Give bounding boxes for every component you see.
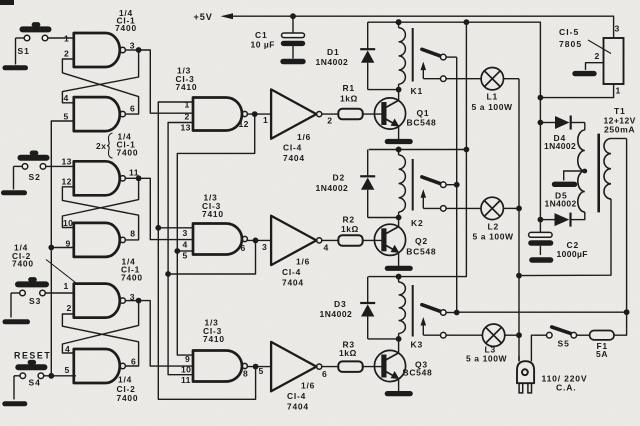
switch S3 pushbutton: [18, 280, 46, 306]
pin number labels latch: [64, 281, 137, 375]
pin number labels latch: [64, 34, 136, 122]
svg-text:CI-5: CI-5: [559, 27, 579, 37]
wire latch cross-coupling: [62, 301, 138, 366]
svg-text:5: 5: [65, 365, 70, 375]
ground at Q2 emitter: [387, 266, 410, 271]
relay K2 coil: [396, 147, 424, 228]
lamp L1 5a 100W: [446, 68, 519, 113]
lamp L2 5a 100W: [446, 197, 522, 241]
svg-text:K1: K1: [411, 86, 423, 96]
svg-text:BC548: BC548: [403, 368, 433, 378]
wire latch upper output to node: [125, 47, 141, 53]
svg-text:3: 3: [615, 24, 620, 34]
relay K3 coil: [396, 274, 423, 350]
wire S1 to latch1 pin 1: [48, 37, 74, 39]
svg-text:7805: 7805: [559, 39, 582, 49]
svg-text:S2: S2: [29, 172, 41, 182]
svg-text:R1: R1: [343, 83, 355, 93]
label 1/4 CI-2 7400 (latch3 lower): [117, 375, 139, 404]
switch S5: [533, 327, 576, 349]
voltage regulator CI-5 7805: [559, 24, 624, 96]
resistor R2 1k: [322, 215, 363, 246]
pin number labels CI-3: [181, 354, 248, 385]
label RESET: [14, 351, 51, 361]
svg-text:7404: 7404: [283, 153, 305, 163]
wire K3 NO contact to bus: [446, 312, 457, 314]
svg-text:3: 3: [183, 228, 188, 238]
svg-text:7400: 7400: [115, 23, 137, 33]
svg-text:CI-4: CI-4: [282, 267, 301, 277]
resistor R1 1k: [322, 83, 363, 119]
wire latch upper output to node: [125, 298, 141, 304]
svg-text:RESET: RESET: [14, 351, 51, 361]
transformer T1 secondary winding: [578, 123, 585, 220]
wire latch cross-coupling: [62, 50, 138, 114]
svg-text:4: 4: [183, 240, 188, 250]
svg-text:D3: D3: [334, 299, 346, 309]
svg-text:1/6: 1/6: [296, 257, 310, 267]
svg-text:L1: L1: [487, 92, 499, 102]
svg-text:5 a 100W: 5 a 100W: [472, 102, 514, 112]
svg-text:L2: L2: [488, 222, 500, 232]
relay K2 contacts: [421, 177, 447, 211]
svg-text:6: 6: [241, 243, 246, 253]
wire latch3 output to CI-3c pin10: [139, 301, 193, 367]
svg-text:1: 1: [263, 115, 268, 125]
pin number labels latch: [62, 157, 139, 249]
switch S1 pushbutton: [18, 25, 49, 56]
svg-text:2: 2: [185, 112, 190, 122]
svg-text:7404: 7404: [282, 278, 304, 288]
switch S2 pushbutton: [21, 153, 47, 182]
svg-text:7410: 7410: [202, 209, 224, 219]
svg-text:S1: S1: [18, 46, 30, 56]
transformer T1 primary winding: [519, 139, 627, 313]
svg-text:6: 6: [131, 357, 136, 367]
inverter CI-4: [271, 342, 322, 391]
svg-text:K3: K3: [411, 340, 423, 350]
svg-text:BC548: BC548: [407, 118, 437, 128]
transistor Q3 BC548: [363, 339, 433, 391]
label 110/220V C.A.: [542, 374, 588, 393]
label 1/4 CI-1 7400 (latch2 lower): [121, 257, 143, 283]
svg-text:13: 13: [62, 157, 72, 167]
mains plug 110/220V: [517, 335, 534, 393]
svg-text:1kΩ: 1kΩ: [340, 94, 358, 104]
wire latch upper output to node: [125, 175, 141, 181]
svg-text:3: 3: [130, 41, 135, 51]
wire S2 to latch2 pin 13: [46, 165, 74, 167]
wire latch2 output to CI-3b pin4: [139, 178, 193, 239]
svg-text:4: 4: [324, 243, 329, 253]
svg-text:3: 3: [130, 292, 135, 302]
svg-text:5: 5: [183, 251, 188, 261]
svg-text:6: 6: [130, 104, 135, 114]
wire mains line from NO bus to fuse junction: [457, 309, 630, 315]
svg-text:2: 2: [595, 51, 600, 61]
svg-text:1kΩ: 1kΩ: [339, 348, 357, 358]
ground at S2: [4, 166, 25, 192]
svg-text:+5V: +5V: [194, 12, 213, 22]
wire latch1 output to CI-3a pin2: [139, 50, 193, 113]
svg-text:1N4002: 1N4002: [545, 199, 577, 209]
svg-text:4: 4: [64, 93, 69, 103]
svg-text:S4: S4: [29, 378, 41, 388]
svg-text:1N4002: 1N4002: [320, 309, 353, 319]
svg-text:1: 1: [64, 281, 69, 291]
diode D4 1N4002: [538, 116, 585, 152]
labels 1/6 CI-4 7404: [283, 132, 311, 163]
svg-text:6: 6: [322, 369, 327, 379]
wire S4 to latch3 pin 5 and reset bus node: [44, 373, 76, 379]
inverter CI-4: [271, 216, 322, 265]
capacitor C1 10uF: [251, 16, 305, 58]
wire unregulated supply rail: [368, 19, 541, 232]
pin number labels CI-4: [259, 366, 328, 379]
diode D5 1N4002: [538, 191, 586, 227]
svg-text:10 µF: 10 µF: [251, 40, 275, 50]
relay K1 coil: [396, 19, 423, 96]
svg-text:250mA: 250mA: [604, 125, 635, 135]
svg-text:10: 10: [181, 365, 191, 375]
scan corner mark: [0, 0, 14, 5]
pin number labels CI-3: [181, 100, 249, 133]
svg-text:2: 2: [327, 116, 332, 126]
3-input NAND gate CI-3: [193, 98, 247, 131]
relay K3 contacts: [421, 305, 447, 338]
nand gate latch upper (out 11): [74, 161, 126, 195]
svg-text:4: 4: [65, 344, 70, 354]
wire latch cross-coupling: [62, 178, 138, 240]
3-input NAND gate CI-3: [193, 224, 247, 255]
svg-text:8: 8: [243, 369, 248, 379]
svg-text:2: 2: [64, 49, 69, 59]
labels 1/3 CI-3 7410: [203, 318, 225, 345]
svg-text:2x: 2x: [96, 141, 107, 151]
svg-text:CI-4: CI-4: [287, 391, 306, 401]
wire CI-5 pin2 to ground: [586, 63, 604, 70]
label +5V with arrow: [194, 12, 234, 22]
svg-text:Q2: Q2: [415, 236, 428, 246]
svg-text:5: 5: [259, 366, 264, 376]
svg-text:1: 1: [64, 34, 69, 44]
svg-text:5: 5: [64, 112, 69, 122]
nand gate latch lower (out 6): [74, 97, 126, 131]
wire NO-contact bus K1-K2-K3: [454, 57, 460, 315]
wire coil supply bus: [368, 19, 469, 279]
transistor Q1 BC548: [363, 90, 437, 140]
svg-text:7404: 7404: [287, 402, 309, 412]
svg-text:1/4: 1/4: [118, 375, 132, 385]
svg-text:1kΩ: 1kΩ: [341, 224, 359, 234]
labels 1/3 CI-3 7410: [176, 66, 198, 93]
svg-text:7400: 7400: [12, 259, 34, 269]
svg-text:7410: 7410: [203, 334, 225, 344]
capacitor C2 1000uF: [529, 232, 588, 259]
inverter CI-4: [271, 89, 322, 138]
svg-text:10: 10: [63, 218, 73, 228]
svg-text:9: 9: [185, 354, 190, 364]
ground at C1: [283, 59, 303, 64]
svg-text:12: 12: [239, 119, 249, 129]
ground at Q1 emitter: [387, 139, 410, 144]
lamp L3 5a 100W: [446, 324, 522, 364]
wire CI-3 output to inverter input: [247, 239, 271, 241]
svg-text:K2: K2: [411, 218, 423, 228]
labels 1/6 CI-4 7404: [287, 381, 315, 412]
svg-text:1N4002: 1N4002: [544, 141, 576, 151]
resistor R3 1k: [322, 340, 363, 372]
wire K2 NO contact to bus: [446, 184, 457, 186]
svg-text:D2: D2: [333, 173, 345, 183]
label 1/4 CI-2 7400 (left) with pointer: [12, 243, 76, 283]
svg-text:C.A.: C.A.: [556, 383, 576, 393]
wire bus B1: CI-3c output to pin1 and pin3: [155, 102, 258, 399]
svg-text:1: 1: [616, 86, 621, 96]
svg-text:5 a 100W: 5 a 100W: [466, 354, 508, 364]
nand gate latch upper (out 3): [74, 33, 126, 67]
svg-text:S3: S3: [29, 296, 41, 306]
svg-text:12: 12: [62, 177, 72, 187]
wire bus B2: CI-3b output to pin13 and pin11: [165, 123, 258, 375]
relay K1 contacts: [421, 49, 447, 81]
ground at S3: [5, 293, 28, 322]
svg-text:1/6: 1/6: [297, 132, 311, 142]
svg-text:7400: 7400: [117, 393, 139, 403]
svg-text:Q1: Q1: [417, 108, 430, 118]
svg-text:11: 11: [181, 375, 191, 385]
transformer T1 core: [597, 134, 600, 213]
wire lamp return bus to plug: [516, 79, 522, 362]
svg-text:BC548: BC548: [406, 247, 436, 257]
svg-text:8: 8: [130, 229, 135, 239]
wire S3 to latch3 pin 1: [45, 292, 74, 294]
switch S4 pushbutton: [18, 362, 44, 387]
svg-text:1/6: 1/6: [301, 381, 315, 391]
fuse F1 5A: [577, 312, 627, 359]
svg-text:1N4002: 1N4002: [316, 183, 349, 193]
svg-text:1: 1: [185, 100, 190, 110]
svg-text:2: 2: [67, 303, 72, 313]
transformer T1 12+12V 250mA: [604, 106, 636, 135]
svg-text:T1: T1: [614, 106, 626, 116]
svg-text:D1: D1: [327, 47, 339, 57]
labels 1/3 CI-3 7410: [202, 193, 224, 220]
ground at S1: [5, 38, 26, 68]
wire +5V rail: [231, 13, 614, 38]
transistor Q2 BC548: [363, 218, 437, 267]
wire bus B3: CI-3a output to pin5 and pin9: [174, 111, 257, 355]
wire K1 NO contact to bus: [446, 56, 457, 58]
svg-text:7400: 7400: [121, 273, 143, 283]
ground at S4: [5, 376, 25, 404]
ground at Q3 emitter: [387, 391, 410, 396]
wire CI-5 pin1 to rectifier output: [538, 84, 614, 101]
pin number labels CI-3: [183, 228, 246, 261]
diode D2 1N4002: [316, 150, 399, 218]
svg-text:3: 3: [262, 242, 267, 252]
ground at CI-5 pin2: [575, 71, 594, 76]
3-input NAND gate CI-3: [193, 351, 247, 382]
svg-text:1000µF: 1000µF: [557, 249, 588, 259]
ground at C2: [532, 257, 551, 263]
pin number labels CI-4: [262, 242, 329, 253]
svg-text:7410: 7410: [176, 82, 198, 92]
svg-text:C1: C1: [255, 30, 267, 40]
label 2x CI-1 7400 with brace: [96, 132, 138, 159]
svg-text:7400: 7400: [117, 148, 139, 158]
svg-text:CI-4: CI-4: [283, 143, 302, 153]
svg-text:5 a 100W: 5 a 100W: [473, 232, 515, 242]
diode D1 1N4002: [316, 22, 399, 89]
label 1/4 CI-1 7400 (latch1): [115, 8, 137, 33]
nand gate latch lower (out 6): [74, 349, 126, 383]
wire reset bus S4 to latch1 pin5 and latch2 pin9: [48, 121, 73, 376]
svg-text:S5: S5: [558, 339, 570, 349]
nand gate latch upper (out 3): [74, 284, 126, 318]
svg-text:1N4002: 1N4002: [316, 57, 349, 67]
labels 1/6 CI-4 7404: [282, 257, 310, 288]
wire T1 center tap to ground: [564, 169, 587, 181]
nand gate latch lower (out 8): [74, 223, 126, 257]
wire CI-3 output to inverter input: [247, 113, 271, 115]
ground at T1 center tap: [555, 182, 575, 187]
svg-text:5A: 5A: [596, 349, 608, 359]
wire CI-3 output to inverter input: [247, 366, 271, 368]
svg-text:11: 11: [129, 168, 139, 178]
svg-text:13: 13: [181, 123, 191, 133]
diode D3 1N4002: [320, 277, 399, 339]
pin number labels CI-4: [263, 115, 332, 126]
